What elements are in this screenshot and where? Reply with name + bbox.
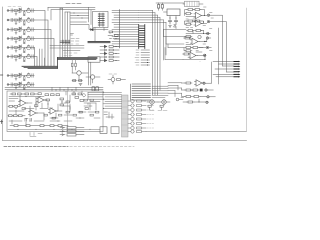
top bundle corner drops xyxy=(48,7,51,20)
box resistors left xyxy=(8,105,25,116)
input channel row 7 xyxy=(7,73,34,81)
Q12 resistor xyxy=(148,105,151,107)
misc label dashes top-left xyxy=(8,6,21,8)
label dashes xyxy=(71,39,79,42)
S7 terminal xyxy=(205,89,208,92)
caption dashed faint xyxy=(70,146,134,148)
connector CN1 pads xyxy=(234,62,239,77)
driver row 1 Q14 xyxy=(131,99,134,102)
wire long bottom xyxy=(146,130,247,132)
wire row2 to bus xyxy=(34,20,48,66)
S6 wire up xyxy=(205,62,211,83)
S6-S9 left stubs xyxy=(182,83,187,102)
S2 wires xyxy=(184,21,206,24)
regulator box VR1 xyxy=(167,9,180,16)
Q12 marks xyxy=(151,101,153,103)
verticals into band C xyxy=(89,7,92,24)
ground VR1 xyxy=(169,26,172,28)
wire box1 to band C xyxy=(95,28,104,42)
central bus v5 xyxy=(163,20,165,60)
S3 wires xyxy=(186,31,207,34)
bend verticals xyxy=(175,83,182,97)
S7 dark part xyxy=(200,89,203,92)
box opamp A2 xyxy=(36,97,45,103)
crystal Y1 xyxy=(92,87,95,91)
band-end box B2 xyxy=(88,57,100,62)
S1 opamp U2A xyxy=(194,12,203,18)
S2 resistors xyxy=(187,20,194,22)
VR1 junction dots xyxy=(169,17,170,18)
input channel row 3 xyxy=(7,27,34,35)
box mid resistors xyxy=(45,93,84,106)
bottom rows RN row2 xyxy=(60,130,84,133)
junction cluster x63 y41 xyxy=(60,40,70,44)
Q9 leads xyxy=(72,73,88,79)
box inner bottom wire xyxy=(8,128,100,130)
title text dashes xyxy=(66,3,81,5)
S4 resistors xyxy=(184,37,191,39)
central bus v6 xyxy=(165,22,167,55)
box divider xyxy=(67,91,69,132)
input channel row 1 (J1,C1,R1,D1,Q1) xyxy=(7,8,34,16)
cluster resistors xyxy=(117,79,121,81)
box diamond VR xyxy=(82,94,86,98)
stage S9 row4 xyxy=(187,99,209,104)
amp stage Q10 cluster xyxy=(90,75,94,79)
Q9 bias resistor xyxy=(75,63,77,66)
transistor Q12 xyxy=(150,100,154,104)
box opamp A4 xyxy=(48,108,57,114)
wire row4 to bus xyxy=(34,39,54,67)
diode D10 xyxy=(174,25,176,29)
Q13 leads xyxy=(158,102,170,110)
MCU left pin dots xyxy=(103,92,104,93)
VR1 leads xyxy=(164,12,177,20)
frame border bottom xyxy=(3,140,247,142)
Q10 leads xyxy=(86,77,100,83)
junction marks xyxy=(71,34,74,36)
right bend wires from MCU xyxy=(168,83,182,93)
S5 output terminal xyxy=(203,54,206,57)
box internals: top resistor row xyxy=(10,93,38,95)
J9 pins xyxy=(187,1,197,6)
S6 resistors xyxy=(185,82,192,84)
ladder top corners to bus xyxy=(139,10,167,22)
box bottom dots xyxy=(18,128,91,131)
input channel row 5 xyxy=(7,45,34,53)
cap C21 xyxy=(174,21,177,25)
long vertical bus v1 xyxy=(59,8,61,57)
bus top corners xyxy=(60,8,70,12)
wire row5 to bus xyxy=(33,48,35,67)
wire row1 to bus xyxy=(34,11,45,67)
emitter resistors row xyxy=(72,80,82,82)
output loop wire W1 xyxy=(210,15,227,72)
S7 resistors xyxy=(185,89,192,91)
long vertical bus v5 xyxy=(69,12,71,58)
long vertical bus v3 xyxy=(64,12,66,58)
driver row 8 Q21 xyxy=(131,130,134,133)
box ladder column C xyxy=(100,13,104,27)
header box J9 xyxy=(185,1,200,6)
box wires xyxy=(9,95,70,126)
Q12 leads xyxy=(147,102,158,110)
S4 wires xyxy=(184,38,207,51)
below-box marks xyxy=(30,133,42,137)
connector CN1 wires xyxy=(213,62,234,77)
bus vertical w3 xyxy=(44,58,46,66)
stage S6 row1 xyxy=(185,62,212,86)
bottom rows RN blocks row1 xyxy=(60,127,84,130)
band A to band B jog xyxy=(57,57,59,68)
IC U1 left bus line xyxy=(119,10,121,49)
tap junction dots xyxy=(74,13,75,14)
terminal T5 xyxy=(206,46,209,49)
box junction dots xyxy=(20,101,21,102)
MCU pin bundle dark rows xyxy=(131,84,151,100)
xtal leads xyxy=(156,3,184,11)
small cluster x176 y99 xyxy=(176,98,179,101)
bottom rows RN row3 xyxy=(60,134,84,137)
MCU U5 body shaded xyxy=(122,95,129,137)
box extra dots xyxy=(16,96,89,121)
driver row 5 Q18 xyxy=(131,117,134,120)
mid rows x63-84 y44-57 wires xyxy=(50,46,84,51)
xtal parts X1 X2 xyxy=(158,5,160,9)
box opamp A3 xyxy=(28,110,37,116)
top wire bundle pair xyxy=(48,7,95,9)
driver row 2 Q15 xyxy=(131,104,134,107)
pad cluster below pinfield xyxy=(108,31,119,39)
stage S7 row2 xyxy=(185,89,214,92)
IC U1 pin rows xyxy=(112,10,139,46)
input channel row 4 xyxy=(7,36,34,44)
resistor network RN1 ladder xyxy=(139,25,145,49)
S5 wires xyxy=(183,52,205,60)
verticals below B2 xyxy=(89,62,91,85)
driver rows: circle+resistor column xyxy=(128,99,154,133)
driver row 7 Q20 xyxy=(131,126,134,129)
box ladder rungs xyxy=(98,14,104,25)
stage S8 row3 xyxy=(185,96,216,99)
driver row 3 Q16 xyxy=(131,108,134,111)
opamp stage S3 xyxy=(185,30,209,38)
label dashes under transistors xyxy=(150,110,167,112)
S3 resistors xyxy=(187,30,194,32)
frame sheet tick 1 xyxy=(1,120,3,124)
S4 transistor Q11 xyxy=(198,35,201,38)
frame sheet tick 2 xyxy=(1,74,3,76)
MCU lower-left parts xyxy=(104,112,114,119)
transistor Q13 xyxy=(162,100,166,104)
input channel row 8 xyxy=(7,82,34,90)
amp stage Q9 cluster xyxy=(77,71,81,75)
S3 output terminal xyxy=(207,32,210,35)
wire diode to box xyxy=(93,29,108,31)
S2 output terminal xyxy=(207,20,210,23)
RN1 rungs xyxy=(140,26,145,47)
driver row 4 Q17 xyxy=(131,113,134,116)
CN1 pad tips xyxy=(239,61,241,78)
MCU pin bundle right rows xyxy=(152,86,168,98)
feed corner verticals xyxy=(164,30,169,60)
lower right cluster x112 y76 xyxy=(111,78,115,82)
Q13 marks xyxy=(163,101,165,103)
S5 resistors xyxy=(183,53,190,55)
J9 lead xyxy=(183,3,203,5)
mid rows marks xyxy=(66,43,79,45)
ground cluster xyxy=(79,84,82,86)
S4 opamp U3A xyxy=(190,38,199,44)
central bus v2 xyxy=(154,13,156,95)
sub pin rows below ladder xyxy=(135,50,150,66)
S2 opamp U2B xyxy=(194,20,203,26)
relay boxes K1 K2 xyxy=(100,127,107,134)
central bus v1 xyxy=(152,10,154,95)
bus vertical w1 xyxy=(39,49,41,66)
caption dashed text line xyxy=(4,146,68,148)
S1 wires xyxy=(185,10,207,17)
mid label dashes xyxy=(64,53,77,56)
S1 input resistors xyxy=(185,13,192,15)
central bus v3 xyxy=(157,15,159,95)
input channel row 6 xyxy=(7,54,34,62)
S1 junctions xyxy=(204,15,205,16)
nested feed wires to stages xyxy=(164,30,187,60)
opamp stage S2 xyxy=(184,20,209,27)
box extra wiring mesh xyxy=(9,91,100,121)
opamp stage S1 xyxy=(185,9,210,19)
cap C20 xyxy=(168,21,171,25)
opamp stage S5 xyxy=(183,52,206,60)
resistor-diode ladder right col r1 xyxy=(100,45,119,61)
collector bus band B xyxy=(58,57,98,59)
collector bus band A xyxy=(22,66,58,68)
output loop wire W2 xyxy=(206,28,219,84)
frame border right xyxy=(246,8,248,131)
S6 terminal xyxy=(203,82,206,85)
Q13 resistor xyxy=(160,105,163,107)
bus vertical w2 xyxy=(41,49,43,66)
top feed wires into box xyxy=(5,87,103,89)
S1 output terminal xyxy=(207,14,210,17)
S5 opamp U3B xyxy=(188,52,197,58)
MCU body ticks xyxy=(122,101,129,131)
S6 opamp U4A xyxy=(194,80,203,86)
mid wires with taps y13 xyxy=(71,13,89,18)
frame border left xyxy=(2,7,4,141)
box opamp A1 xyxy=(18,100,27,106)
S1 feedback resistors xyxy=(187,9,194,11)
central bus v4 xyxy=(159,18,161,91)
box right wire rows to MCU xyxy=(88,92,103,101)
box caps xyxy=(25,118,31,121)
filter box B1 xyxy=(93,12,109,28)
dark band C xyxy=(88,42,110,43)
stage value label dashes xyxy=(186,7,213,62)
input channel row 2 xyxy=(7,17,34,25)
corner wires to diode xyxy=(71,22,94,30)
dashes labels xyxy=(109,73,117,75)
MCU left pin wires xyxy=(103,92,122,108)
terminal T4 xyxy=(206,37,209,40)
drop verticals into box xyxy=(52,87,76,91)
long vertical bus v2 xyxy=(62,8,64,57)
Q9 base resistor xyxy=(72,63,74,66)
wire row6 to bus xyxy=(34,57,37,67)
sub-circuit box outline xyxy=(7,91,103,132)
wire row3 to bus xyxy=(34,30,51,67)
box extra resistors xyxy=(22,93,99,119)
Q9 leads2 xyxy=(72,60,75,73)
opamp stage S4 xyxy=(184,35,207,52)
diode D9 xyxy=(91,28,94,31)
box bottom row parts xyxy=(10,125,68,127)
long vertical bus v4 xyxy=(67,12,69,58)
driver row 6 Q19 xyxy=(131,122,134,125)
